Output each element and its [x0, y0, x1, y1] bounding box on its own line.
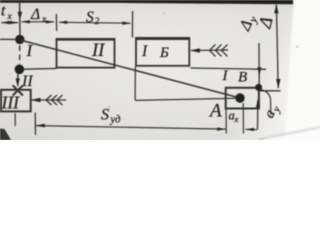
dimension tx double arrow: [1, 21, 18, 24]
wire Sud left extension line: [34, 113, 36, 136]
svg-text:Δ: Δ: [254, 15, 276, 31]
dimension S2: [59, 21, 131, 25]
svg-text:B: B: [238, 70, 247, 86]
node B dot: [255, 84, 262, 91]
feathered arrow into box III: [31, 95, 66, 105]
X mark tool point: [13, 85, 23, 95]
label Delta-y rotated: [236, 12, 260, 35]
speck noise: [109, 13, 299, 110]
label tx: [1, 3, 13, 23]
svg-text:I: I: [141, 43, 148, 60]
svg-text:S: S: [101, 107, 109, 124]
arrow up inside box (ay): [256, 99, 260, 129]
wire approach path to point A: [135, 98, 238, 100]
node dot2: [15, 65, 25, 75]
svg-text:x: x: [7, 12, 13, 22]
faint page edge line: [258, 127, 320, 139]
svg-text:Δ: Δ: [30, 6, 40, 23]
label ax: [229, 109, 239, 125]
wire from dot2 to box II corner: [24, 67, 57, 70]
dimension Sud line with arrows: [35, 124, 257, 131]
svg-text:S: S: [86, 9, 94, 26]
dimension Delta-y arrow: [257, 43, 261, 86]
box I-B lower with A and B: [222, 68, 259, 109]
diagonal trajectory wire dot1 to dot A: [20, 40, 240, 98]
svg-text:t: t: [1, 3, 6, 20]
wire extension of box I-B left edge down: [134, 67, 136, 101]
node A tool dot: [235, 93, 244, 102]
arrow down from dot2: [16, 74, 20, 87]
node start point dot1: [15, 35, 24, 44]
svg-text:2: 2: [95, 17, 100, 27]
svg-text:II: II: [91, 41, 105, 61]
box I-B upper: [135, 39, 190, 66]
arrowhead down on extension line: [18, 12, 23, 20]
svg-text:III: III: [1, 93, 21, 113]
wire dashed between dot1 and dot2: [19, 46, 21, 65]
svg-text:Б: Б: [159, 45, 169, 61]
label Delta rotated: [254, 15, 276, 31]
wire ax left extension: [225, 109, 227, 134]
wire extension line at x=132.5: [131, 11, 133, 38]
wire short extension under X: [14, 113, 16, 126]
feathered arrow into box I-B: [190, 44, 228, 56]
wire extension line at x=56.5: [55, 14, 57, 31]
wire from left edge to dot1: [0, 38, 15, 40]
box III: [1, 90, 31, 113]
bottom left ink smudge: [0, 129, 11, 141]
box II: [56, 39, 115, 67]
ay leader arc from B: [260, 90, 271, 116]
svg-text:I: I: [222, 68, 229, 84]
dimension Delta-x: [21, 20, 54, 24]
wire extension line at x=19.5: [19, 3, 21, 36]
dimension Delta vertical: [274, 4, 280, 89]
label Sud: [101, 107, 120, 126]
white page corner wedge bottom-right: [261, 122, 320, 141]
svg-text:уд: уд: [110, 115, 121, 126]
white page margin right: [284, 0, 320, 142]
wire B-level extension to Delta arrow: [259, 90, 281, 92]
wire top border bar: [0, 0, 293, 4]
label Delta-x: [30, 6, 47, 25]
svg-text:A: A: [208, 101, 222, 122]
svg-text:x: x: [234, 114, 239, 124]
wire ax right extension: [242, 103, 244, 134]
label ay rotated: [261, 102, 283, 122]
wire extension of box I-B bottom edge to the right: [191, 68, 267, 69]
label S2: [86, 9, 100, 27]
svg-text:II: II: [21, 73, 33, 90]
